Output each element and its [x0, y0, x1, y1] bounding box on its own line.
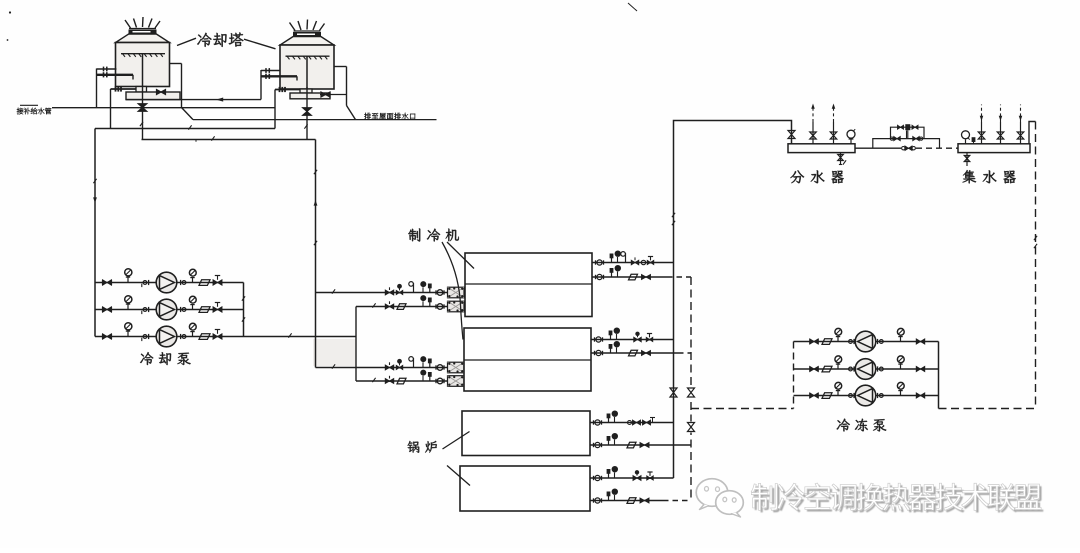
chilled pump branch 3 suction gauge: [837, 390, 839, 396]
suction riser tick: [93, 179, 96, 183]
chiller branch 3 sensor: [429, 363, 431, 368]
chiller branch 1 flange: [435, 290, 437, 294]
CT2 left loop riser pipe: [260, 70, 262, 100]
B1b check valve: [627, 442, 636, 448]
CT2 overflow slant to drain line: [347, 106, 356, 120]
return drop flow ticks: [1034, 236, 1037, 240]
R1 P thermometer: [625, 253, 627, 263]
label cooling tower 冷却塔: [197, 32, 243, 47]
chilled pump branch 1 inlet butterfly valve: [810, 339, 819, 344]
cooling pump branch 1 discharge butterfly valve: [213, 280, 222, 286]
CT1 overflow stub: [170, 63, 182, 65]
chilled pump branch 2 discharge butterfly valve: [916, 366, 925, 371]
chiller branch 1 gauge: [422, 287, 424, 292]
B1b butterfly valve: [640, 443, 649, 448]
leader line to CT2: [244, 39, 276, 49]
cooling tower CT2 collection basin: [290, 93, 330, 99]
R2 butterfly valve: [642, 275, 651, 280]
cooling pump branch 1 inlet butterfly valve: [103, 280, 112, 286]
chiller branch 2 gauge: [422, 301, 424, 306]
return main valve 2: [687, 422, 695, 433]
cooling tower CT1 fan rays: [125, 20, 131, 28]
chiller branch 2 tick: [372, 303, 375, 307]
return riser flow arrow: [314, 200, 318, 206]
chilled water supply main (solid): [674, 121, 792, 479]
chiller branch 1 balance valve: [396, 290, 403, 294]
B2a sensor and gauge: [608, 474, 610, 479]
distributor gauge: [850, 139, 852, 144]
CT1 basin outlet drop pipe: [110, 89, 112, 129]
chiller 1 supply branch R1 pipe: [592, 262, 674, 264]
CT2 basin drain stub: [320, 94, 347, 96]
cooling tower CT2 fan cowl bar: [294, 30, 321, 32]
CT1 riser pipe below valve: [142, 87, 144, 140]
chiller branch 4 sensor: [429, 377, 431, 382]
CT1 overflow drop pipe: [181, 64, 183, 108]
CT2 overflow stub: [334, 66, 347, 68]
CT1 basin outlet stub: [111, 88, 137, 90]
roof drain line: [193, 119, 437, 121]
cooling pump branch 2 discharge gauge: [192, 304, 194, 310]
leader line to boiler 2: [447, 466, 470, 486]
R3 valve a: [634, 337, 642, 342]
cooling pump branch 2 discharge union: [180, 307, 182, 312]
cooling pump branch 1 check valve: [199, 280, 210, 286]
CT1 riser tick label: [140, 122, 143, 126]
label roof drain 排至屋面排水口: [364, 113, 415, 120]
makeup water pipe overline: [20, 104, 38, 106]
chilled pump branch 2 suction union: [849, 367, 853, 371]
CT1 left upper stub pipe: [97, 68, 117, 70]
chilled pump branch 2 pipe: [794, 368, 939, 370]
cooling pump branch 1 discharge union: [180, 280, 182, 285]
chiller branch 3 pipe: [316, 367, 449, 369]
label chilled pumps 冷冻泵: [837, 419, 887, 432]
chiller branch 1 flexible connector: [448, 287, 465, 298]
chiller branch 1 tick: [332, 289, 335, 293]
collector 集水器 header: [958, 144, 1030, 153]
chiller 1 return branch R2 pipe: [592, 276, 667, 278]
CT1 spray inlet pipe (dark): [97, 74, 134, 76]
chiller branch 4 flexible connector: [448, 376, 465, 387]
chiller 2 supply branch R3 pipe: [591, 339, 674, 341]
chilled pump branch 3 check valve: [822, 393, 832, 399]
CT1 left upper stub unions: [103, 67, 105, 72]
chiller branch 2 flange: [435, 304, 437, 308]
distributor riser 2: [833, 122, 835, 144]
CT1 overflow slant to drain line: [182, 108, 194, 120]
B1b flange: [593, 443, 595, 447]
chiller branch 1 butterfly valve: [385, 290, 394, 295]
chilled pump discharge manifold: [938, 342, 940, 409]
chiller branch 4 flange: [435, 379, 437, 383]
B1a sensor and gauge: [608, 418, 610, 423]
chilled pump branch 1 check valve: [822, 339, 832, 345]
cooling pump branch 3 suction union: [143, 335, 147, 339]
watermark logo big bubble: [696, 479, 728, 507]
cooling pump P3: [156, 326, 177, 347]
B2a flange: [593, 476, 595, 480]
cooling pump branch 2 suction union: [143, 308, 147, 312]
chilled pump branch 1 suction union: [849, 340, 853, 344]
cooling pump branch 3 inlet butterfly valve: [103, 334, 112, 340]
bypass upper frame: [891, 127, 925, 138]
B2b flange: [593, 498, 595, 502]
chilled pump branch 1 discharge gauge: [900, 336, 902, 342]
cooling tower CT1 collection basin: [126, 92, 180, 100]
equalizer flow arrow: [216, 98, 223, 102]
CT2 riser isolation valve (solid): [303, 108, 312, 116]
chilled pump branch 1 discharge union: [877, 339, 879, 344]
bypass loop frame: [873, 139, 940, 149]
scan shading patch: [313, 339, 356, 366]
R2 sensor and gauge: [611, 273, 613, 278]
CT1 left loop riser pipe: [96, 69, 98, 108]
CT2 riser tick label: [304, 124, 307, 128]
collector riser 2: [1000, 122, 1002, 144]
cooling tower CT1 body: [116, 43, 170, 87]
supply main flow ticks: [672, 213, 675, 217]
cooling pump branch 3 suction gauge: [127, 331, 129, 337]
R3 sensor and gauge: [610, 335, 612, 340]
line l2 label tick: [188, 125, 191, 129]
collector outlet link: [1029, 122, 1036, 144]
CT2 spray inlet pipe (dark): [261, 75, 297, 77]
R2 check valve: [629, 274, 638, 280]
CT2 overflow drop pipe: [346, 67, 348, 106]
R3 T valve: [646, 337, 653, 341]
CT2 basin outlet drop pipe: [274, 90, 276, 129]
chilled pump branch 2 inlet butterfly valve: [810, 366, 819, 371]
suction header line l2: [95, 128, 275, 130]
chiller branch 2 pipe: [356, 306, 448, 308]
CT2 basin drain valve: [321, 92, 330, 97]
leader line to CT1: [177, 38, 196, 45]
cooling tower CT2 spray distribution line: [286, 55, 330, 57]
chiller branch 2 flexible connector: [448, 301, 465, 312]
B1a valve pair: [628, 421, 632, 425]
chilled pump branch 1 suction gauge: [837, 336, 839, 342]
B2a T valve: [647, 476, 654, 480]
cooling pump branch 1 suction union: [143, 281, 147, 285]
supply main valve: [670, 388, 677, 397]
chiller branch 1 P thermometer: [413, 283, 415, 293]
CT2 basin outlet union (dark): [279, 87, 281, 92]
chilled water return main (dashed): [690, 277, 692, 501]
chiller branch 3 flange: [435, 365, 437, 369]
chiller branch 3 tick: [332, 364, 335, 368]
distributor feed valve: [788, 131, 795, 139]
chiller branch 1 sensor: [429, 288, 431, 293]
chilled pump branch 2 suction gauge: [837, 364, 839, 370]
chiller branch 3 flexible connector: [448, 362, 465, 373]
cooling pump P1: [156, 272, 177, 293]
chiller unit 1 divider: [465, 283, 592, 285]
condenser inlet riser x356: [355, 307, 357, 382]
cooling tower CT1 basin neck: [136, 87, 147, 93]
CT2 left upper stub pipe: [261, 70, 280, 72]
cooling pump branch 2 check valve: [199, 307, 210, 313]
collector riser 1: [981, 122, 983, 144]
cooling pump discharge header: [243, 283, 245, 337]
return riser tick: [314, 170, 317, 174]
CT2 left upper stub unions: [265, 68, 267, 73]
scan speck marks: [9, 11, 11, 13]
CT2 spray inlet unions: [265, 74, 267, 79]
cooling pump branch 1 suction gauge: [127, 277, 129, 283]
R4 flange: [594, 351, 596, 355]
chiller branch 2 sensor: [429, 302, 431, 307]
chilled pump branch 3 discharge gauge: [900, 390, 902, 396]
cooling tower CT2 fan rays: [290, 23, 296, 31]
chilled pump CP2: [855, 359, 876, 380]
cooling pump branch 3 discharge butterfly valve: [213, 334, 222, 340]
boiler 1 box: [462, 411, 590, 456]
R3 flange: [594, 337, 596, 341]
cooling pump branch 3 pipe: [95, 336, 356, 338]
chiller unit 2 box: [464, 328, 591, 391]
cooling tower CT1 fan casing trapezoid: [116, 34, 170, 42]
chiller unit 2 divider: [464, 359, 591, 361]
CT1 spray inlet unions: [103, 72, 105, 77]
label cooling pumps 冷却泵: [140, 352, 191, 365]
R1 flange: [595, 260, 597, 264]
distributor 分水器 header: [788, 144, 855, 153]
boiler 1 supply branch pipe: [590, 422, 674, 424]
chiller unit 1 box: [465, 253, 592, 317]
discharge line l3 tick: [288, 333, 291, 337]
collector drain: [966, 153, 968, 166]
leader line to chiller 1: [447, 242, 474, 269]
distributor riser 1: [812, 122, 814, 144]
cooling pump branch 2 suction gauge: [127, 304, 129, 310]
boiler 1 return branch pipe: [590, 444, 691, 446]
chilled pump return link (dashed): [939, 408, 1036, 410]
cooling tower CT2 basin neck: [300, 89, 312, 93]
R1 T valve: [647, 260, 654, 264]
chilled pump branch 2 discharge union: [877, 366, 879, 371]
makeup water pipe / basin suction header: [52, 107, 275, 109]
chilled pump branch 2 check valve: [822, 366, 832, 372]
CT2 basin outlet stub: [275, 89, 300, 91]
chiller branch 4 tick: [372, 378, 375, 382]
collector riser 3: [1020, 122, 1022, 144]
chiller branch 3 butterfly valve: [385, 365, 394, 370]
spray supply line l1: [142, 139, 316, 141]
chiller branch 4 pipe: [356, 380, 448, 382]
CT2 riser pipe below valve: [306, 87, 308, 140]
condenser return riser (right): [315, 140, 317, 368]
R2 flange: [595, 275, 597, 279]
cooling water suction riser (left): [94, 129, 96, 337]
watermark text: [751, 483, 1041, 511]
bypass differential valve: [898, 125, 904, 129]
R4 sensor and gauge: [610, 349, 612, 354]
label makeup water 接补给水管: [17, 108, 52, 115]
R1 sensor and gauge: [611, 258, 613, 263]
chiller 2 return branch R4 pipe: [591, 352, 678, 354]
collector sensor: [973, 142, 975, 144]
chiller branch 3 gauge: [422, 362, 424, 367]
chiller branch 2 butterfly valve: [385, 304, 394, 309]
cooling pump branch 3 discharge gauge: [192, 331, 194, 337]
B1a flange: [593, 420, 595, 424]
chilled pump branch 3 inlet butterfly valve: [810, 393, 819, 398]
CT1 basin drain valve: [157, 90, 166, 95]
cooling pump branch 1 pipe: [95, 282, 244, 284]
chiller branch 3 balance valve: [396, 365, 403, 369]
cooling pump branch 2 inlet butterfly valve: [103, 307, 112, 313]
label 集水器: [962, 170, 1015, 183]
chilled pump branch 1 pipe: [794, 341, 939, 343]
label chiller 制冷机: [408, 228, 459, 241]
discharge header tick 2: [242, 317, 245, 321]
R1 union circle: [641, 260, 645, 264]
R1 valve: [631, 260, 639, 265]
CT1 riser isolation valve (solid): [138, 104, 147, 112]
cooling tower CT1 spray distribution line: [121, 53, 165, 55]
leader line to boiler 1: [443, 432, 470, 450]
B2b butterfly valve: [640, 498, 649, 503]
B1b sensor and gauge: [608, 441, 610, 446]
cooling pump branch 1 discharge gauge: [192, 277, 194, 283]
chiller branch 4 check valve: [397, 378, 406, 384]
R4 check valve: [629, 350, 638, 356]
chilled pump branch 3 pipe: [794, 395, 939, 397]
discharge header tick 1: [242, 296, 245, 300]
boiler 2 return branch pipe: [590, 500, 663, 502]
chilled pump branch 3 discharge union: [877, 393, 879, 398]
R4 butterfly valve: [642, 351, 651, 356]
collector return drop (dashed): [1035, 122, 1037, 409]
boiler 2 supply branch pipe: [590, 477, 674, 479]
cooling pump branch 2 pipe: [95, 309, 244, 311]
cooling tower CT2 fan casing trapezoid: [280, 37, 334, 45]
chilled pump branch 1 discharge butterfly valve: [916, 339, 925, 344]
cooling pump branch 2 discharge butterfly valve: [213, 307, 222, 313]
label boiler 锅炉: [408, 441, 437, 453]
B2b sensor and gauge: [608, 496, 610, 501]
chiller branch 1 pipe: [316, 292, 449, 294]
chilled pump branch 3 suction union: [849, 394, 853, 398]
cooling tower CT1 internal riser pipe: [142, 54, 144, 87]
chiller branch 2 check valve: [397, 304, 406, 310]
watermark logo small bubble: [716, 491, 744, 515]
chilled pump branch 2 discharge gauge: [900, 364, 902, 370]
cooling tower CT2 internal riser pipe: [306, 56, 308, 89]
chilled pump branch 3 discharge butterfly valve: [916, 393, 925, 398]
cooling pump branch 3 discharge union: [180, 334, 182, 339]
bypass main line: [855, 147, 901, 149]
chiller branch 4 butterfly valve: [385, 379, 394, 384]
chiller branch 4 gauge: [422, 376, 424, 381]
return riser tick 2: [314, 241, 317, 245]
label 分水器: [790, 170, 843, 183]
line l1 label tick: [211, 136, 214, 140]
cooling pump branch 3 check valve: [199, 334, 210, 340]
collector gauge: [965, 140, 967, 144]
cooling pump P2: [156, 299, 177, 320]
watermark text shadow: [753, 485, 1043, 513]
boiler 2 box: [460, 466, 590, 511]
return main valve 1: [687, 387, 695, 398]
chilled pump suction manifold (dashed): [793, 342, 795, 409]
return branch to pumps (dashed): [691, 408, 794, 410]
bypass loop valves: [890, 137, 893, 140]
cooling tower CT1 fan cowl bar: [129, 28, 156, 30]
CT1 basin outlet union (dark): [115, 86, 117, 91]
tower basin equalizer line (arrowed): [126, 99, 261, 101]
B2a valve a: [633, 476, 641, 481]
leader line to chiller 2: [442, 242, 463, 340]
B2b check valve: [627, 498, 636, 504]
distributor drain: [840, 153, 842, 165]
chilled pump CP3: [855, 385, 876, 406]
chilled pump CP1: [855, 331, 876, 352]
suction riser flow arrow: [93, 197, 97, 203]
cooling tower CT2 body: [280, 45, 334, 89]
chiller branch 3 P thermometer: [413, 358, 415, 368]
